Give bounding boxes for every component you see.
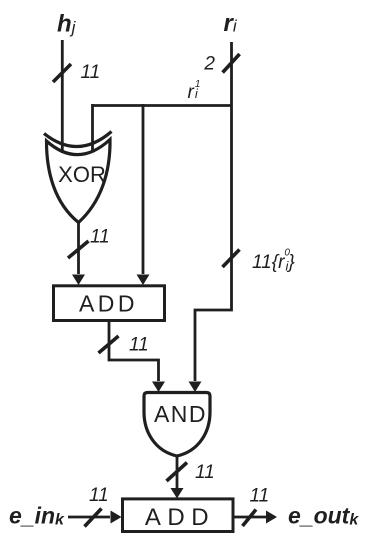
svg-text:AND: AND (154, 401, 207, 427)
svg-text:2: 2 (203, 54, 215, 75)
svg-text:11: 11 (129, 335, 149, 356)
svg-text:11: 11 (250, 486, 270, 507)
svg-text:11: 11 (90, 227, 110, 248)
svg-text:ADD: ADD (79, 291, 138, 317)
svg-text:XOR: XOR (58, 162, 106, 187)
svg-text:11{r0i}: 11{r0i} (252, 248, 295, 274)
svg-text:ADD: ADD (145, 504, 215, 531)
svg-text:11: 11 (89, 485, 109, 506)
svg-text:11: 11 (195, 462, 215, 483)
svg-text:e_outk: e_outk (288, 503, 359, 529)
svg-text:11: 11 (81, 62, 101, 83)
